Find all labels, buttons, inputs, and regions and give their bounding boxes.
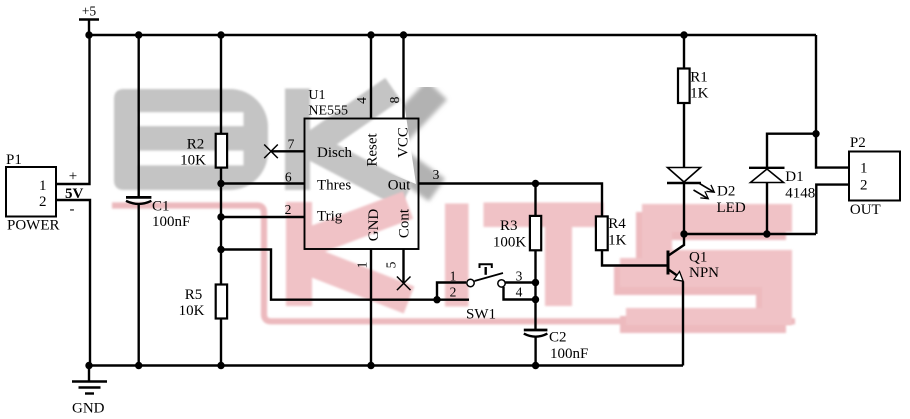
wire node to D1 top (767, 134, 816, 168)
wire pin4 Reset riser (370, 35, 372, 119)
svg-text:GND: GND (72, 401, 105, 417)
resistor R3 (493, 184, 541, 251)
wire pin6 Thres (221, 182, 305, 184)
svg-text:8: 8 (387, 96, 402, 103)
svg-text:NE555: NE555 (308, 103, 348, 118)
wire LED to collector node (683, 184, 685, 234)
wire R1 bottom to LED (683, 103, 685, 168)
wire pin1 GND down (370, 249, 372, 366)
wire P1 pin1 to top rail (56, 35, 90, 184)
wire collector node row (684, 233, 816, 235)
connector P2 (849, 135, 900, 218)
no-connect X pin5 (397, 277, 411, 291)
svg-text:SW1: SW1 (466, 307, 496, 323)
svg-text:Reset: Reset (365, 133, 381, 167)
svg-text:5: 5 (384, 261, 399, 268)
svg-text:R3: R3 (500, 218, 518, 234)
svg-text:Q1: Q1 (689, 250, 707, 266)
svg-text:4148: 4148 (785, 185, 815, 201)
svg-text:1: 1 (860, 161, 868, 177)
svg-text:+5: +5 (82, 4, 97, 19)
svg-text:POWER: POWER (7, 218, 60, 234)
junction dots middle (217, 130, 819, 303)
wire P2 pin2 (816, 185, 849, 234)
svg-text:2: 2 (860, 178, 868, 194)
wire top rail (89, 34, 816, 36)
svg-text:D1: D1 (785, 169, 803, 185)
watermark pink swoosh outline (112, 206, 795, 322)
svg-text:1K: 1K (690, 85, 709, 101)
capacitor C1 (126, 35, 190, 366)
svg-text:P1: P1 (6, 152, 22, 168)
power symbol +5 (79, 4, 99, 35)
watermark pink letter S (614, 204, 792, 333)
wire P2 pin1 (816, 134, 849, 168)
svg-text:R4: R4 (608, 216, 626, 232)
svg-text:7: 7 (288, 137, 295, 152)
watermark gray letter B (114, 89, 268, 190)
watermark gray letter K shadow (376, 90, 437, 190)
svg-text:R5: R5 (185, 287, 203, 303)
svg-text:4: 4 (354, 97, 369, 104)
svg-text:U1: U1 (308, 88, 325, 103)
resistor R1 (678, 35, 709, 103)
svg-text:VCC: VCC (396, 127, 412, 158)
svg-text:GND: GND (366, 209, 382, 242)
svg-text:C1: C1 (152, 199, 170, 215)
svg-text:10K: 10K (180, 152, 206, 168)
wire pin7 stub (271, 150, 305, 152)
transistor Q1 (668, 234, 719, 281)
svg-text:+: + (69, 169, 77, 185)
svg-text:10K: 10K (179, 303, 205, 319)
svg-text:Out: Out (388, 177, 411, 193)
wire R3 bottom to switch (534, 250, 536, 330)
resistor R2 (180, 35, 227, 168)
junction dots bottom rail (85, 362, 539, 369)
svg-text:-: - (70, 202, 75, 218)
svg-text:C2: C2 (549, 329, 567, 345)
switch SW1 (437, 264, 536, 322)
svg-text:100nF: 100nF (152, 214, 190, 230)
svg-text:2: 2 (39, 194, 47, 210)
watermark gray letter K (285, 89, 406, 197)
svg-text:Trig: Trig (317, 209, 343, 225)
ground symbol (72, 366, 107, 417)
wire bottom rail (89, 364, 683, 366)
resistor R4 (596, 216, 627, 250)
junction dots top rail (85, 31, 687, 38)
svg-text:Thres: Thres (317, 177, 351, 193)
svg-text:1: 1 (39, 178, 47, 194)
watermark pink letter T (484, 203, 604, 307)
wire Q1 emitter down (682, 282, 684, 366)
wire pin5 stub (402, 249, 404, 283)
svg-text:2: 2 (450, 285, 457, 300)
wire R2 bottom to R5 top (220, 168, 222, 285)
svg-text:D2: D2 (717, 184, 735, 200)
svg-text:4: 4 (516, 285, 523, 300)
svg-text:100K: 100K (493, 235, 527, 251)
wire R4 bottom to Q1 base (602, 251, 668, 266)
wire pin2 Trig (221, 216, 305, 218)
svg-text:R2: R2 (187, 136, 205, 152)
op IC U1 NE555 box (305, 88, 419, 249)
diode D1 (749, 168, 815, 234)
watermark pink letter K (286, 202, 409, 306)
svg-text:OUT: OUT (850, 202, 881, 218)
resistor R5 (179, 285, 228, 319)
wire node to switch row (221, 250, 437, 300)
svg-text:1: 1 (354, 262, 369, 269)
svg-text:R1: R1 (690, 70, 708, 86)
wire Out pin3 (419, 184, 603, 216)
wire pin8 VCC riser (402, 35, 404, 119)
svg-text:Disch: Disch (317, 145, 352, 161)
no-connect X pin7 (264, 145, 278, 159)
svg-text:2: 2 (285, 202, 292, 217)
svg-text:3: 3 (433, 167, 440, 182)
svg-text:Cont: Cont (397, 208, 413, 238)
capacitor C2 (524, 329, 589, 365)
wire top rail right corner down (815, 35, 817, 134)
label 5V plus minus (65, 169, 84, 218)
svg-text:100nF: 100nF (550, 346, 588, 362)
svg-text:6: 6 (285, 170, 292, 185)
svg-text:P2: P2 (850, 135, 866, 151)
wire R5 bottom to bottom rail (220, 319, 222, 366)
connector P1 (6, 152, 60, 234)
svg-text:1K: 1K (608, 232, 627, 248)
svg-text:LED: LED (717, 200, 746, 216)
wire P1 pin2 to bottom rail (56, 200, 90, 366)
svg-text:1: 1 (450, 269, 457, 284)
LED D2 (667, 168, 746, 217)
svg-text:NPN: NPN (689, 265, 719, 281)
svg-text:3: 3 (516, 269, 523, 284)
watermark pink letter I (445, 204, 469, 307)
